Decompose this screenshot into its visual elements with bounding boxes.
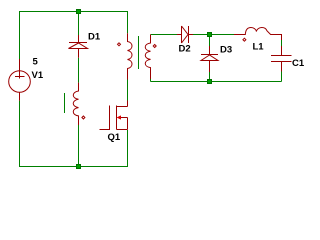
svg-text:D1: D1 [88,32,101,43]
svg-text:Q1: Q1 [108,132,121,143]
svg-text:5: 5 [33,57,39,68]
svg-text:C1: C1 [292,58,304,69]
svg-text:V1: V1 [32,70,44,81]
svg-text:L1: L1 [253,42,265,53]
svg-text:D3: D3 [220,44,232,55]
svg-text:D2: D2 [179,43,191,54]
